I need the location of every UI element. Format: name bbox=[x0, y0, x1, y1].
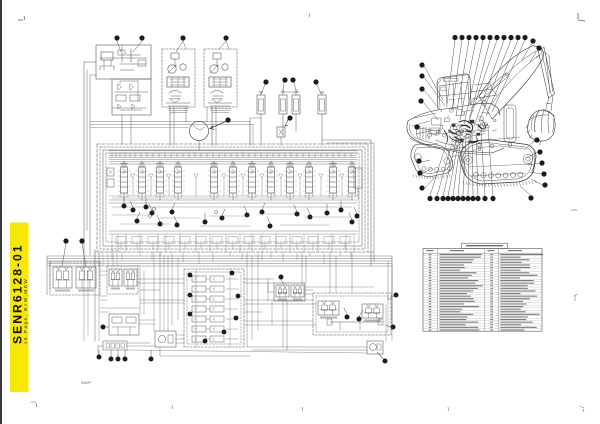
bottom tick 3 bbox=[301, 407, 304, 411]
pump group circles bbox=[450, 123, 459, 132]
leader line bbox=[479, 40, 511, 122]
leader line bbox=[456, 40, 469, 116]
leader line bbox=[472, 134, 473, 196]
leader line bbox=[82, 244, 86, 266]
leader line bbox=[460, 40, 476, 120]
bank callout dot 12 bbox=[260, 210, 265, 215]
leader line bbox=[262, 203, 265, 210]
right track inner band lines bbox=[468, 146, 531, 176]
bank callout dot 6 bbox=[158, 222, 163, 227]
pilot filter group box bbox=[96, 45, 151, 79]
leader line bbox=[386, 325, 391, 327]
excavator left callout 1 bbox=[419, 62, 424, 67]
machinery random detail bbox=[445, 118, 449, 122]
excavator platform body bbox=[408, 103, 500, 121]
engine bay dark accents bbox=[449, 125, 482, 142]
leader line bbox=[344, 308, 347, 315]
leader line bbox=[133, 41, 142, 52]
excavator bottom callout 5 bbox=[450, 196, 455, 201]
bank callout dot 17 bbox=[339, 208, 344, 213]
excavator right callout 2 bbox=[537, 149, 542, 154]
bucket link bbox=[545, 95, 553, 112]
left page edge line bbox=[0, 0, 2, 424]
pump1 delivery line bbox=[169, 107, 171, 145]
spool port tick texture bbox=[118, 171, 359, 191]
inlet spool bbox=[210, 161, 219, 200]
leader line bbox=[492, 40, 525, 112]
pilot valve group A bbox=[318, 301, 339, 319]
manifold callout dot 2 bbox=[230, 271, 235, 276]
leader line bbox=[488, 128, 493, 196]
bank callout dot 13 bbox=[268, 224, 273, 229]
bottom tick 2 bbox=[171, 405, 174, 409]
leader line bbox=[145, 198, 147, 205]
leader line bbox=[340, 201, 342, 208]
left lower valve group bbox=[109, 314, 139, 335]
leader line bbox=[453, 137, 461, 196]
bank callout dot 15 bbox=[308, 215, 313, 220]
bottom tick 4 bbox=[447, 407, 450, 411]
callout dot 5 swing joint bbox=[225, 117, 230, 122]
excavator bottom callout 10 bbox=[475, 196, 480, 201]
check valve box bbox=[116, 95, 126, 101]
bucket teeth bbox=[526, 125, 541, 145]
joystick pilot B bbox=[124, 269, 137, 290]
leader line bbox=[317, 85, 321, 95]
bottom callout dot 2 bbox=[109, 357, 114, 362]
travel right spool bbox=[348, 161, 357, 200]
manifold callout dot 4 bbox=[236, 294, 241, 299]
leader line bbox=[474, 40, 504, 126]
bank callout dot 19 bbox=[355, 214, 360, 219]
leader line bbox=[524, 140, 535, 150]
callout dot shuttle valve bbox=[101, 325, 106, 330]
right track treads bbox=[463, 180, 536, 186]
bank callout dot 7 bbox=[170, 210, 175, 215]
callout dot 7 cooler A bbox=[282, 77, 287, 82]
right-margin mark bbox=[574, 294, 577, 301]
leader line bbox=[419, 128, 437, 131]
lower horizontal bus bundle bbox=[47, 255, 392, 257]
excavator bottom callout 8 bbox=[465, 196, 470, 201]
manifold valve row 7 bbox=[192, 336, 206, 342]
arm spool 1 bbox=[286, 161, 295, 200]
leader line bbox=[117, 350, 119, 357]
boom spool 1 bbox=[248, 161, 257, 200]
callout dot 2 breather bbox=[139, 35, 144, 40]
oil cooler element B bbox=[292, 95, 300, 114]
pump module 1 (front pump) bbox=[162, 49, 195, 107]
leader line bbox=[486, 40, 518, 116]
callout dot pilot group 2 bbox=[357, 317, 362, 322]
manifold callout dot 1 bbox=[188, 273, 193, 278]
excavator top callout 12 bbox=[530, 38, 535, 43]
excavator bottom callout 9 bbox=[470, 196, 475, 201]
leader line bbox=[447, 40, 455, 104]
callout dot 8 filter bbox=[313, 79, 318, 84]
leader line bbox=[424, 90, 442, 112]
lower small-valve row bbox=[116, 237, 126, 244]
left track bbox=[411, 144, 453, 177]
bucket bbox=[527, 110, 555, 141]
swing drive circle bbox=[189, 121, 208, 140]
leader line bbox=[421, 160, 430, 162]
excavator bottom callout 11 bbox=[482, 196, 487, 201]
excavator top callout 2 bbox=[459, 35, 464, 40]
bus vertical turns left bbox=[46, 256, 48, 295]
bank callout dot 1 bbox=[122, 204, 127, 209]
leader line bbox=[530, 172, 542, 174]
right outlet section bbox=[354, 168, 362, 188]
bank callout dot 10 bbox=[220, 216, 225, 221]
manifold valve row 4 bbox=[192, 306, 206, 312]
pilot valve sub box bbox=[112, 79, 151, 115]
excavator right callout 3 bbox=[539, 160, 544, 165]
excavator top callout 1 bbox=[452, 35, 457, 40]
dark hose blobs bbox=[459, 121, 473, 130]
machinery cluster bbox=[428, 108, 497, 150]
blade spool bbox=[156, 161, 165, 200]
leader line bbox=[476, 133, 478, 196]
excavator bottom callout 1 bbox=[427, 196, 432, 201]
leader line bbox=[528, 163, 540, 165]
left pilot supply line bbox=[83, 62, 85, 266]
pump lower hatch bbox=[168, 108, 189, 110]
manifold valve row 5 bbox=[192, 316, 206, 322]
bank callout dot 2 bbox=[131, 208, 136, 213]
leader line bbox=[430, 141, 447, 196]
joystick pilot A bbox=[109, 269, 122, 290]
excavator left callout 8 bbox=[419, 185, 424, 190]
boom head gusset bbox=[533, 46, 541, 59]
callout dot pilot group 1 bbox=[345, 315, 350, 320]
leader line bbox=[283, 83, 284, 92]
cooler drop line A bbox=[282, 114, 284, 136]
leader line bbox=[443, 141, 456, 196]
header row bbox=[423, 252, 542, 254]
svg-text:16 Page, B+W,MDW: 16 Page, B+W,MDW bbox=[23, 278, 28, 344]
boom swing spool bbox=[138, 161, 147, 200]
leader line bbox=[150, 350, 152, 357]
excavator left callout 4 bbox=[418, 98, 423, 103]
excavator top callout 4 bbox=[473, 35, 478, 40]
filter element bbox=[318, 95, 326, 114]
mid-top connector lines bbox=[90, 121, 250, 123]
arm spool 2 bbox=[305, 161, 314, 200]
right track bbox=[460, 140, 536, 184]
lower in-bank bus bbox=[109, 230, 357, 232]
solenoid valve block bbox=[277, 127, 285, 137]
manifold callout dot 8 bbox=[222, 330, 227, 335]
svg-text:SAMP*: SAMP* bbox=[81, 381, 92, 385]
leader line bbox=[464, 40, 483, 124]
leader line bbox=[349, 213, 352, 220]
manifold drop bundle 1 bbox=[246, 252, 248, 347]
bucket spool bbox=[329, 161, 338, 200]
excavator top callout 11 bbox=[522, 35, 527, 40]
aux spool bbox=[229, 161, 238, 200]
leader line bbox=[294, 205, 297, 212]
counterweight grille bbox=[416, 126, 429, 141]
attachment pilot valve pair bbox=[274, 283, 305, 301]
table rows bbox=[423, 255, 542, 257]
excavator left callout 5 bbox=[414, 124, 419, 129]
small open circles bbox=[152, 207, 155, 210]
boom spool 2 bbox=[267, 161, 276, 200]
pump module 2 (rear pump) bbox=[204, 49, 237, 107]
stick cylinder bbox=[546, 56, 553, 93]
left track treads bbox=[413, 175, 450, 179]
right edge line bundle bbox=[370, 140, 372, 266]
attachment pilot A bbox=[276, 285, 289, 301]
callout dot pilot supply bbox=[394, 293, 399, 298]
table outer border bbox=[423, 248, 542, 331]
leader line bbox=[204, 213, 206, 220]
tank symbol bbox=[100, 66, 114, 70]
callout dot 3 front pump bbox=[180, 35, 185, 40]
top-center tick bbox=[308, 13, 311, 17]
filter drop line bbox=[321, 114, 323, 145]
stick bbox=[538, 48, 555, 99]
manifold valve row 6 bbox=[192, 326, 206, 332]
travel pilot valve right bbox=[76, 267, 96, 292]
accumulator 1 bbox=[257, 95, 265, 114]
travel pilot valve left bbox=[53, 267, 72, 292]
leader line bbox=[531, 179, 543, 185]
manifold callout dot 7 bbox=[203, 339, 208, 344]
right pilot group dashed box bbox=[313, 293, 391, 335]
callout dot 1 oil tank bbox=[114, 35, 119, 40]
cab bbox=[437, 74, 471, 109]
excavator right callout 1 bbox=[534, 137, 539, 142]
leader line bbox=[124, 350, 126, 357]
travel left spool bbox=[120, 161, 129, 200]
manifold valve row 2 bbox=[192, 286, 206, 292]
leader line bbox=[326, 204, 328, 211]
excavator top callout 7 bbox=[494, 35, 499, 40]
leader line bbox=[522, 44, 532, 61]
excavator top callout 13 bbox=[536, 45, 541, 50]
leader line bbox=[467, 40, 490, 128]
bank callout dot 4 bbox=[135, 219, 140, 224]
leader line bbox=[130, 201, 133, 208]
relief pair bbox=[118, 104, 135, 109]
callout dot 7b cooler B bbox=[290, 77, 295, 82]
excavator top callout 8 bbox=[501, 35, 506, 40]
excavator top callout 10 bbox=[515, 35, 520, 40]
travel pilot outer dashed box bbox=[50, 262, 100, 295]
body panel lines bbox=[412, 113, 436, 134]
arrow to swing circle bbox=[210, 122, 226, 130]
manifold callout dot 6 bbox=[234, 316, 239, 321]
excavator left callout 2 bbox=[419, 73, 424, 78]
leader line bbox=[137, 212, 140, 219]
top bus lines bbox=[109, 150, 357, 152]
leader line bbox=[424, 176, 436, 189]
accumulator drop line bbox=[260, 114, 262, 145]
leader line bbox=[117, 41, 121, 52]
vertical bundle x160-178 bbox=[159, 252, 161, 331]
right-margin dash bbox=[571, 209, 577, 211]
leader line bbox=[354, 207, 357, 214]
leader line bbox=[219, 41, 226, 49]
leader line bbox=[222, 209, 225, 216]
callout dot 4 rear pump bbox=[223, 35, 228, 40]
excavator top callout 9 bbox=[508, 35, 513, 40]
excavator left callout 7 bbox=[417, 170, 422, 175]
bottom manifold fittings bbox=[103, 341, 127, 350]
pilot valve pair dashed box bbox=[107, 266, 138, 294]
bottom callout dot 3 bbox=[116, 357, 121, 362]
bottom tick 5 bbox=[580, 406, 584, 412]
bottom tick 1 bbox=[31, 402, 37, 407]
bank callout dot 11 bbox=[245, 213, 250, 218]
leader line bbox=[422, 168, 432, 174]
column lines bbox=[437, 248, 439, 331]
spool label smudges bbox=[120, 163, 128, 164]
callout dot travel pilot L bbox=[63, 238, 68, 243]
leader line bbox=[172, 203, 175, 210]
leader line bbox=[294, 83, 296, 92]
excavator right callout 4 bbox=[541, 171, 546, 176]
bank callout dot 18 bbox=[350, 220, 355, 225]
bank callout dot 9 bbox=[203, 220, 208, 225]
cooler bracket bbox=[281, 89, 299, 92]
excavator left callout 3 bbox=[419, 86, 424, 91]
leader line bbox=[307, 208, 310, 215]
leader line bbox=[176, 41, 183, 52]
excavator bottom callout 4 bbox=[445, 196, 450, 201]
swing spool bbox=[174, 161, 183, 200]
excavator bottom callout 13 bbox=[528, 195, 533, 200]
leader line bbox=[267, 217, 270, 224]
pilot manifold outer dashed box bbox=[184, 269, 244, 347]
bank callout dot 3 bbox=[144, 205, 149, 210]
bank callout dot 14 bbox=[295, 212, 300, 217]
main control valve outer boundary bbox=[97, 144, 368, 252]
relief valve bbox=[101, 52, 113, 60]
manifold callout dot 3 bbox=[188, 293, 193, 298]
engine hood bbox=[471, 89, 497, 99]
excavator top callout 6 bbox=[487, 35, 492, 40]
bottom callout dot 1 bbox=[97, 355, 102, 360]
pilot valve group B bbox=[362, 304, 383, 322]
vertical dashed bundle from bank to pilots bbox=[94, 250, 96, 266]
drop line from pilot box bbox=[121, 115, 123, 144]
mid bus lines below spools bbox=[109, 199, 357, 201]
port tick marks on top bus bbox=[112, 153, 351, 157]
cooler drop line B bbox=[295, 114, 297, 132]
partial mid segments bbox=[112, 214, 150, 216]
excavator right callout 5 bbox=[542, 182, 547, 187]
left vertical line 2 bbox=[86, 70, 88, 230]
excavator bottom callout 6 bbox=[455, 196, 460, 201]
callout dot attachment pilot bbox=[279, 275, 284, 280]
callout dot slow return bbox=[383, 359, 388, 364]
leader line bbox=[452, 40, 462, 110]
relief valves between spools bbox=[131, 174, 135, 178]
leader line bbox=[424, 66, 443, 100]
leader line bbox=[281, 280, 284, 285]
excavator bottom callout 12 bbox=[490, 196, 495, 201]
right track rollers bbox=[464, 143, 533, 178]
yellow part-number tab bbox=[10, 223, 29, 393]
track frame braces bbox=[446, 132, 470, 156]
excavator top callout 3 bbox=[466, 35, 471, 40]
leader line bbox=[106, 326, 110, 328]
cushion valve box bbox=[155, 331, 176, 347]
breather bbox=[118, 50, 125, 55]
leader line bbox=[468, 136, 469, 196]
boom bbox=[479, 46, 543, 120]
excavator top callout 5 bbox=[480, 35, 485, 40]
boom cylinder bbox=[468, 73, 509, 109]
oil cooler element A bbox=[279, 95, 287, 114]
left inlet section symbols bbox=[107, 168, 114, 176]
leader line bbox=[174, 216, 177, 223]
leader line bbox=[530, 50, 538, 62]
callout dot pilot return bbox=[391, 325, 396, 330]
leader line bbox=[388, 296, 394, 300]
connection web lines bbox=[100, 295, 107, 297]
leader line bbox=[62, 244, 66, 266]
leader line bbox=[261, 85, 265, 95]
bank callout dot 8 bbox=[175, 223, 180, 228]
leader line bbox=[424, 77, 445, 106]
table title box bbox=[462, 243, 508, 248]
leader line bbox=[359, 310, 363, 317]
callout dot 6 accumulator bbox=[263, 79, 268, 84]
secondary mid lines bbox=[109, 195, 357, 197]
attachment pilot B bbox=[291, 285, 304, 301]
pump2 delivery line bbox=[211, 107, 213, 145]
leader line bbox=[110, 350, 112, 357]
leader line bbox=[463, 138, 466, 196]
top-right registration mark bbox=[578, 13, 585, 21]
left track rollers bbox=[415, 154, 452, 172]
leader line bbox=[458, 140, 463, 196]
bus vertical turns right bbox=[391, 256, 393, 330]
leader line bbox=[98, 350, 100, 355]
leader line bbox=[123, 197, 125, 204]
platform second edge bbox=[410, 138, 490, 155]
leader line bbox=[520, 186, 531, 196]
manifold valve row 3 bbox=[192, 296, 206, 302]
bottom callout dot 4 bbox=[123, 357, 128, 362]
callout dot 9 solenoid bbox=[287, 115, 292, 120]
leader line bbox=[470, 40, 497, 118]
top-left registration mark bbox=[18, 16, 25, 20]
filter pair symbols bbox=[118, 81, 138, 101]
boom post frame bbox=[504, 105, 516, 142]
pilot connector line 1 bbox=[140, 299, 184, 301]
leader line bbox=[244, 206, 247, 213]
pump lower hatch bbox=[210, 108, 231, 110]
leader line bbox=[481, 131, 485, 196]
check valve box 2 bbox=[130, 95, 140, 101]
bank callout dot 5 bbox=[150, 211, 155, 216]
bank callout dot 16 bbox=[325, 211, 330, 216]
manifold valve row 1 bbox=[192, 276, 206, 282]
excavator bottom callout 7 bbox=[460, 196, 465, 201]
bottom callout dot 5 bbox=[149, 357, 154, 362]
leader line bbox=[423, 102, 438, 120]
leader line bbox=[448, 139, 459, 196]
excavator bottom callout 2 bbox=[434, 196, 439, 201]
extra web lines bbox=[100, 270, 107, 272]
excavator left callout 6 bbox=[416, 158, 421, 163]
tank line bbox=[121, 45, 123, 62]
